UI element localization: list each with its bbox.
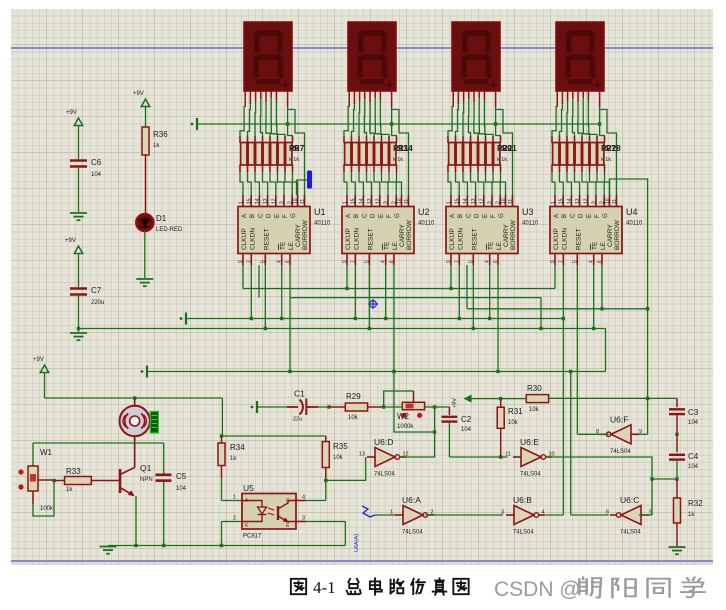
svg-text:R29: R29 — [346, 392, 361, 401]
svg-text:E: E — [378, 214, 385, 218]
svg-text:12: 12 — [271, 198, 277, 204]
svg-text:15: 15 — [351, 198, 357, 204]
svg-text:12: 12 — [375, 198, 381, 204]
svg-text:LE: LE — [288, 241, 295, 250]
svg-text:LE: LE — [392, 241, 399, 250]
svg-text:104: 104 — [688, 420, 699, 426]
svg-text:U6:B: U6:B — [513, 495, 532, 505]
svg-text:6: 6 — [285, 260, 291, 263]
svg-text:W2: W2 — [397, 412, 410, 421]
svg-text:D: D — [266, 213, 273, 218]
svg-text:R30: R30 — [527, 384, 542, 393]
svg-text:3: 3 — [384, 201, 390, 204]
svg-text:LED-RED: LED-RED — [156, 227, 183, 233]
svg-text:RESET: RESET — [263, 228, 270, 250]
svg-text:7: 7 — [454, 260, 460, 263]
svg-text:R7: R7 — [294, 144, 305, 153]
svg-text:CLKDN: CLKDN — [457, 228, 464, 250]
svg-text:10: 10 — [501, 198, 507, 204]
svg-text:3: 3 — [280, 201, 286, 204]
svg-text:9: 9 — [342, 260, 348, 263]
svg-text:C5: C5 — [176, 472, 187, 481]
svg-text:k 1k: k 1k — [601, 157, 611, 163]
svg-text:1k: 1k — [153, 143, 160, 149]
svg-text:G: G — [498, 213, 505, 218]
svg-text:11: 11 — [508, 199, 514, 204]
svg-text:U6:C: U6:C — [620, 495, 639, 505]
svg-text:U4: U4 — [626, 207, 638, 217]
svg-text:RESET: RESET — [367, 228, 374, 250]
svg-text:1: 1 — [447, 201, 453, 204]
svg-text:9: 9 — [238, 260, 244, 263]
svg-text:10k: 10k — [508, 420, 519, 426]
svg-text:C1: C1 — [294, 389, 305, 399]
svg-text:74LS04: 74LS04 — [513, 530, 534, 536]
svg-text:11: 11 — [404, 199, 410, 204]
svg-text:15: 15 — [455, 198, 461, 204]
svg-text:74LS04: 74LS04 — [402, 530, 423, 536]
svg-text:RESET: RESET — [471, 228, 478, 250]
svg-text:3: 3 — [592, 201, 598, 204]
svg-text:12: 12 — [583, 198, 589, 204]
svg-text:D: D — [370, 213, 377, 218]
svg-text:Q1: Q1 — [140, 463, 152, 473]
svg-text:R33: R33 — [66, 467, 81, 476]
svg-text:R28: R28 — [606, 144, 621, 153]
svg-text:B: B — [457, 214, 464, 218]
svg-text:k 1k: k 1k — [497, 157, 507, 163]
svg-text:5: 5 — [468, 260, 474, 263]
svg-text:CARRY: CARRY — [607, 224, 614, 247]
svg-text:4: 4 — [277, 260, 283, 263]
svg-text:D: D — [474, 213, 481, 218]
svg-text:3: 3 — [302, 516, 305, 522]
svg-text:E: E — [274, 214, 281, 218]
svg-text:B: B — [353, 214, 360, 218]
svg-text:E: E — [482, 214, 489, 218]
svg-text:104: 104 — [461, 427, 472, 433]
svg-text:C: C — [361, 213, 368, 218]
svg-text:22u: 22u — [293, 417, 302, 423]
svg-text:13: 13 — [359, 452, 365, 458]
svg-text:U6:F: U6:F — [610, 414, 628, 424]
svg-text:13: 13 — [575, 198, 581, 204]
svg-text:G: G — [602, 213, 609, 218]
svg-text:CLKUP: CLKUP — [241, 228, 248, 250]
svg-text:CLKUP: CLKUP — [553, 228, 560, 250]
svg-text:R32: R32 — [688, 499, 703, 508]
svg-text:6: 6 — [597, 260, 603, 263]
svg-text:CLKDN: CLKDN — [561, 228, 568, 250]
svg-text:104: 104 — [91, 172, 102, 178]
svg-text:+9V: +9V — [133, 91, 144, 97]
svg-text:C4: C4 — [688, 452, 699, 461]
svg-text:CLKDN: CLKDN — [353, 228, 360, 250]
svg-text:E: E — [586, 214, 593, 218]
svg-text:TE: TE — [384, 241, 391, 250]
svg-text:+9V: +9V — [33, 357, 44, 363]
svg-text:14: 14 — [359, 198, 365, 204]
svg-text:B: B — [249, 214, 256, 218]
svg-text:4-1: 4-1 — [313, 578, 336, 597]
svg-text:5: 5 — [260, 260, 266, 263]
svg-text:U3: U3 — [522, 207, 534, 217]
svg-text:C: C — [257, 213, 264, 218]
svg-text:13: 13 — [263, 198, 269, 204]
svg-text:LE: LE — [600, 241, 607, 250]
svg-text:4: 4 — [381, 260, 387, 263]
svg-text:104: 104 — [176, 486, 187, 492]
svg-text:11: 11 — [505, 452, 511, 458]
svg-text:PC817: PC817 — [243, 534, 262, 540]
svg-text:U1: U1 — [314, 207, 326, 217]
svg-text:13: 13 — [471, 198, 477, 204]
svg-text:D: D — [578, 213, 585, 218]
svg-text:1k: 1k — [230, 456, 237, 462]
svg-text:9: 9 — [550, 260, 556, 263]
svg-text:2: 2 — [233, 516, 236, 522]
svg-text:1: 1 — [551, 201, 557, 204]
svg-text:11: 11 — [300, 199, 306, 204]
svg-text:7: 7 — [350, 260, 356, 263]
svg-text:10k: 10k — [529, 407, 540, 413]
svg-text:R21: R21 — [502, 144, 517, 153]
svg-text:C: C — [569, 213, 576, 218]
svg-text:40110: 40110 — [314, 221, 331, 227]
svg-text:40110: 40110 — [522, 221, 539, 227]
svg-text:B: B — [561, 214, 568, 218]
svg-text:11: 11 — [612, 199, 618, 204]
svg-text:F: F — [490, 214, 497, 218]
svg-text:104: 104 — [688, 464, 699, 470]
svg-text:TE: TE — [280, 241, 287, 250]
svg-text:10k: 10k — [348, 415, 359, 421]
svg-text:40110: 40110 — [418, 221, 435, 227]
svg-text:R36: R36 — [153, 130, 168, 139]
svg-text:5: 5 — [572, 260, 578, 263]
svg-text:12: 12 — [479, 198, 485, 204]
svg-text:CARRY: CARRY — [295, 224, 302, 247]
svg-text:F: F — [386, 214, 393, 218]
svg-text:U6:D: U6:D — [374, 437, 393, 447]
svg-text:4: 4 — [589, 260, 595, 263]
svg-text:100k: 100k — [40, 506, 54, 512]
svg-text:W1: W1 — [40, 448, 53, 457]
svg-text:+9V: +9V — [65, 238, 76, 244]
svg-text:40110: 40110 — [626, 221, 643, 227]
svg-text:14: 14 — [463, 198, 469, 204]
svg-text:7: 7 — [558, 260, 564, 263]
svg-text:C6: C6 — [91, 158, 102, 167]
svg-text:CARRY: CARRY — [503, 224, 510, 247]
svg-text:74LS04: 74LS04 — [374, 472, 395, 478]
svg-text:U2: U2 — [418, 207, 430, 217]
svg-text:BORROW: BORROW — [406, 219, 413, 250]
svg-text:15: 15 — [559, 198, 565, 204]
svg-text:10: 10 — [397, 198, 403, 204]
svg-text:1k: 1k — [688, 512, 695, 518]
svg-text:C7: C7 — [91, 286, 102, 295]
svg-text:F: F — [282, 214, 289, 218]
svg-text:D1: D1 — [156, 214, 167, 223]
svg-text:14: 14 — [255, 198, 261, 204]
svg-text:1: 1 — [239, 201, 245, 204]
svg-text:CLKDN: CLKDN — [249, 228, 256, 250]
svg-text:R34: R34 — [230, 443, 245, 452]
svg-text:U6:E: U6:E — [520, 437, 539, 447]
svg-text:+9V: +9V — [66, 110, 77, 116]
svg-text:TE: TE — [488, 241, 495, 250]
svg-text:4: 4 — [542, 510, 545, 516]
svg-text:10: 10 — [605, 198, 611, 204]
svg-text:7: 7 — [246, 260, 252, 263]
svg-text:C: C — [465, 213, 472, 218]
svg-text:1: 1 — [343, 201, 349, 204]
svg-text:CLKUP: CLKUP — [449, 228, 456, 250]
svg-text:14: 14 — [567, 198, 573, 204]
svg-text:3: 3 — [488, 201, 494, 204]
svg-text:5: 5 — [364, 260, 370, 263]
svg-text:+9V: +9V — [452, 398, 458, 408]
svg-text:R31: R31 — [508, 407, 523, 416]
svg-text:1: 1 — [233, 495, 236, 501]
svg-text:74LS04: 74LS04 — [520, 472, 541, 478]
svg-text:TE: TE — [592, 241, 599, 250]
svg-text:NPN: NPN — [140, 477, 153, 483]
svg-text:CSDN @: CSDN @ — [494, 578, 581, 601]
svg-text:4: 4 — [485, 260, 491, 263]
svg-text:RESET: RESET — [575, 228, 582, 250]
svg-text:R35: R35 — [333, 442, 348, 451]
svg-text:BORROW: BORROW — [510, 219, 517, 250]
svg-text:BORROW: BORROW — [302, 219, 309, 250]
svg-text:1000k: 1000k — [397, 424, 414, 430]
svg-text:U6A(A): U6A(A) — [354, 534, 360, 552]
svg-text:C2: C2 — [461, 415, 472, 424]
svg-text:CLKUP: CLKUP — [345, 228, 352, 250]
svg-text:G: G — [290, 213, 297, 218]
svg-text:220u: 220u — [91, 300, 104, 306]
svg-text:LE: LE — [496, 241, 503, 250]
svg-text:10k: 10k — [333, 455, 344, 461]
svg-text:U6:A: U6:A — [402, 495, 421, 505]
svg-text:10: 10 — [293, 198, 299, 204]
svg-text:CARRY: CARRY — [399, 224, 406, 247]
svg-text:1k: 1k — [66, 487, 73, 493]
svg-text:15: 15 — [247, 198, 253, 204]
svg-text:U5: U5 — [243, 483, 254, 493]
svg-text:4: 4 — [302, 495, 305, 501]
svg-text:k 1k: k 1k — [289, 157, 299, 163]
svg-text:9: 9 — [446, 260, 452, 263]
svg-text:6: 6 — [493, 260, 499, 263]
svg-text:C3: C3 — [688, 408, 699, 417]
svg-text:R14: R14 — [398, 144, 413, 153]
svg-text:74LS04: 74LS04 — [610, 449, 631, 455]
svg-text:74LS04: 74LS04 — [620, 530, 641, 536]
svg-text:F: F — [594, 214, 601, 218]
svg-text:BORROW: BORROW — [614, 219, 621, 250]
svg-text:k 1k: k 1k — [393, 157, 403, 163]
svg-text:6: 6 — [389, 260, 395, 263]
svg-text:G: G — [394, 213, 401, 218]
svg-text:13: 13 — [367, 198, 373, 204]
